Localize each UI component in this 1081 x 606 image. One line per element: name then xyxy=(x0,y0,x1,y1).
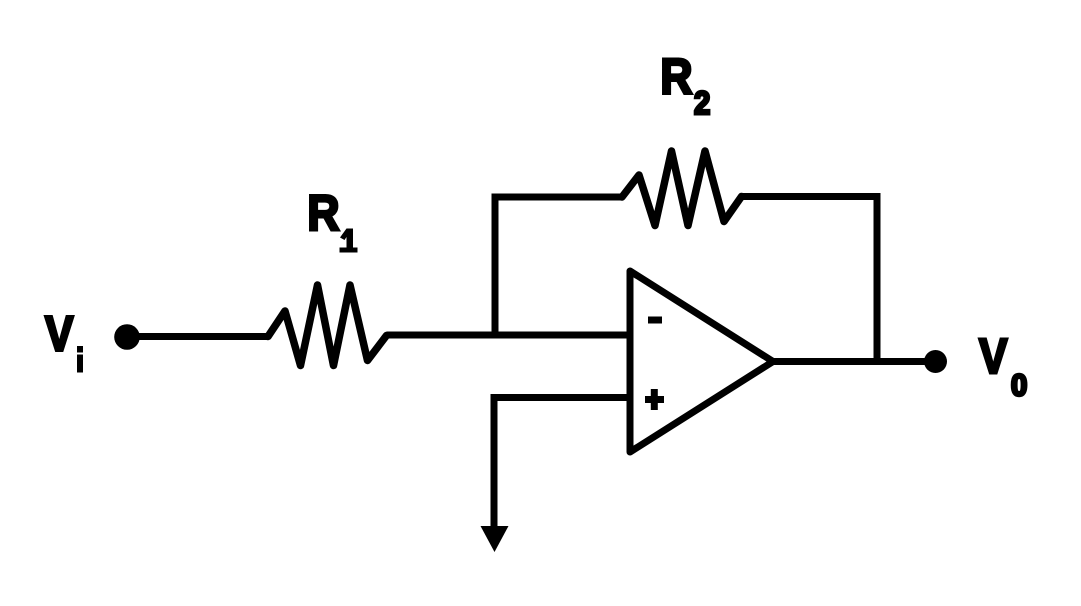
svg-text:R: R xyxy=(307,186,339,242)
svg-text:R: R xyxy=(660,49,692,105)
label Vi xyxy=(45,305,83,372)
wire input left segment xyxy=(130,333,268,340)
op-amp U1 triangle xyxy=(630,271,773,452)
svg-text:2: 2 xyxy=(694,85,710,122)
resistor R1 xyxy=(268,285,387,366)
wire feedback top left horizontal xyxy=(492,194,623,201)
wire feedback right vertical xyxy=(874,197,881,362)
label R2 xyxy=(660,49,710,121)
node Vo output terminal xyxy=(924,350,947,373)
label R1 xyxy=(307,186,357,253)
wire output xyxy=(771,358,928,365)
svg-text:V: V xyxy=(979,328,1008,384)
ground (down arrow) xyxy=(481,398,509,553)
wire non-inverting input xyxy=(491,394,631,401)
wire feedback left vertical xyxy=(492,197,499,335)
op-amp U1 plus input marker xyxy=(645,389,664,410)
resistor R2 xyxy=(622,151,742,226)
svg-text:V: V xyxy=(45,305,74,361)
node Vi input terminal xyxy=(114,324,140,350)
svg-text:0: 0 xyxy=(1011,369,1027,403)
wire R1 to op-amp inverting input xyxy=(387,332,631,339)
label Vo xyxy=(979,328,1027,403)
wire feedback top right horizontal xyxy=(742,193,881,200)
op-amp U1 minus input marker xyxy=(648,317,662,324)
